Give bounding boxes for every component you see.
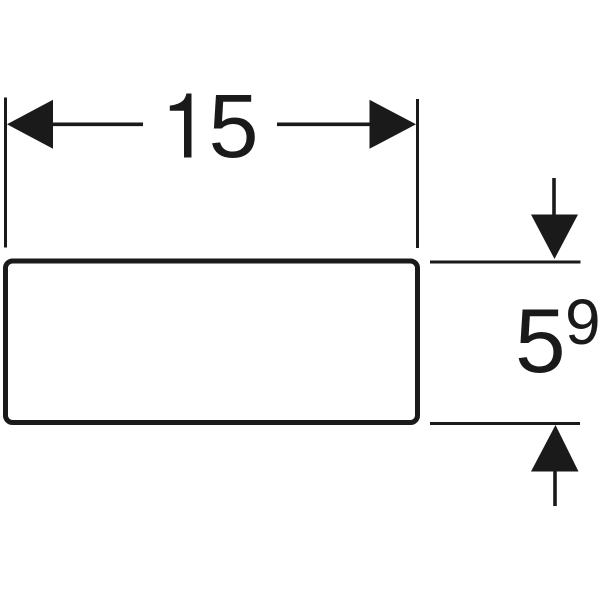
extension line left (width dim)	[4, 98, 7, 248]
extension line top right (height dim)	[430, 261, 581, 264]
arrowhead down	[531, 215, 578, 260]
svg-text:9: 9	[565, 286, 600, 358]
dimension line right segment	[277, 123, 372, 127]
rectangle (part outline)	[6, 261, 418, 423]
svg-text:5: 5	[209, 77, 259, 177]
dimension line left segment	[48, 123, 143, 127]
arrowhead up	[531, 425, 579, 472]
label 15 digit 1 (width value)	[170, 94, 192, 158]
svg-text:5: 5	[515, 291, 566, 392]
arrowhead right	[370, 100, 417, 149]
arrowhead left	[7, 100, 53, 149]
down arrow stem (height dim)	[552, 178, 556, 218]
up arrow stem (height dim)	[553, 471, 557, 506]
extension line right (width dim)	[416, 99, 419, 248]
extension line bottom right (height dim)	[430, 422, 580, 425]
